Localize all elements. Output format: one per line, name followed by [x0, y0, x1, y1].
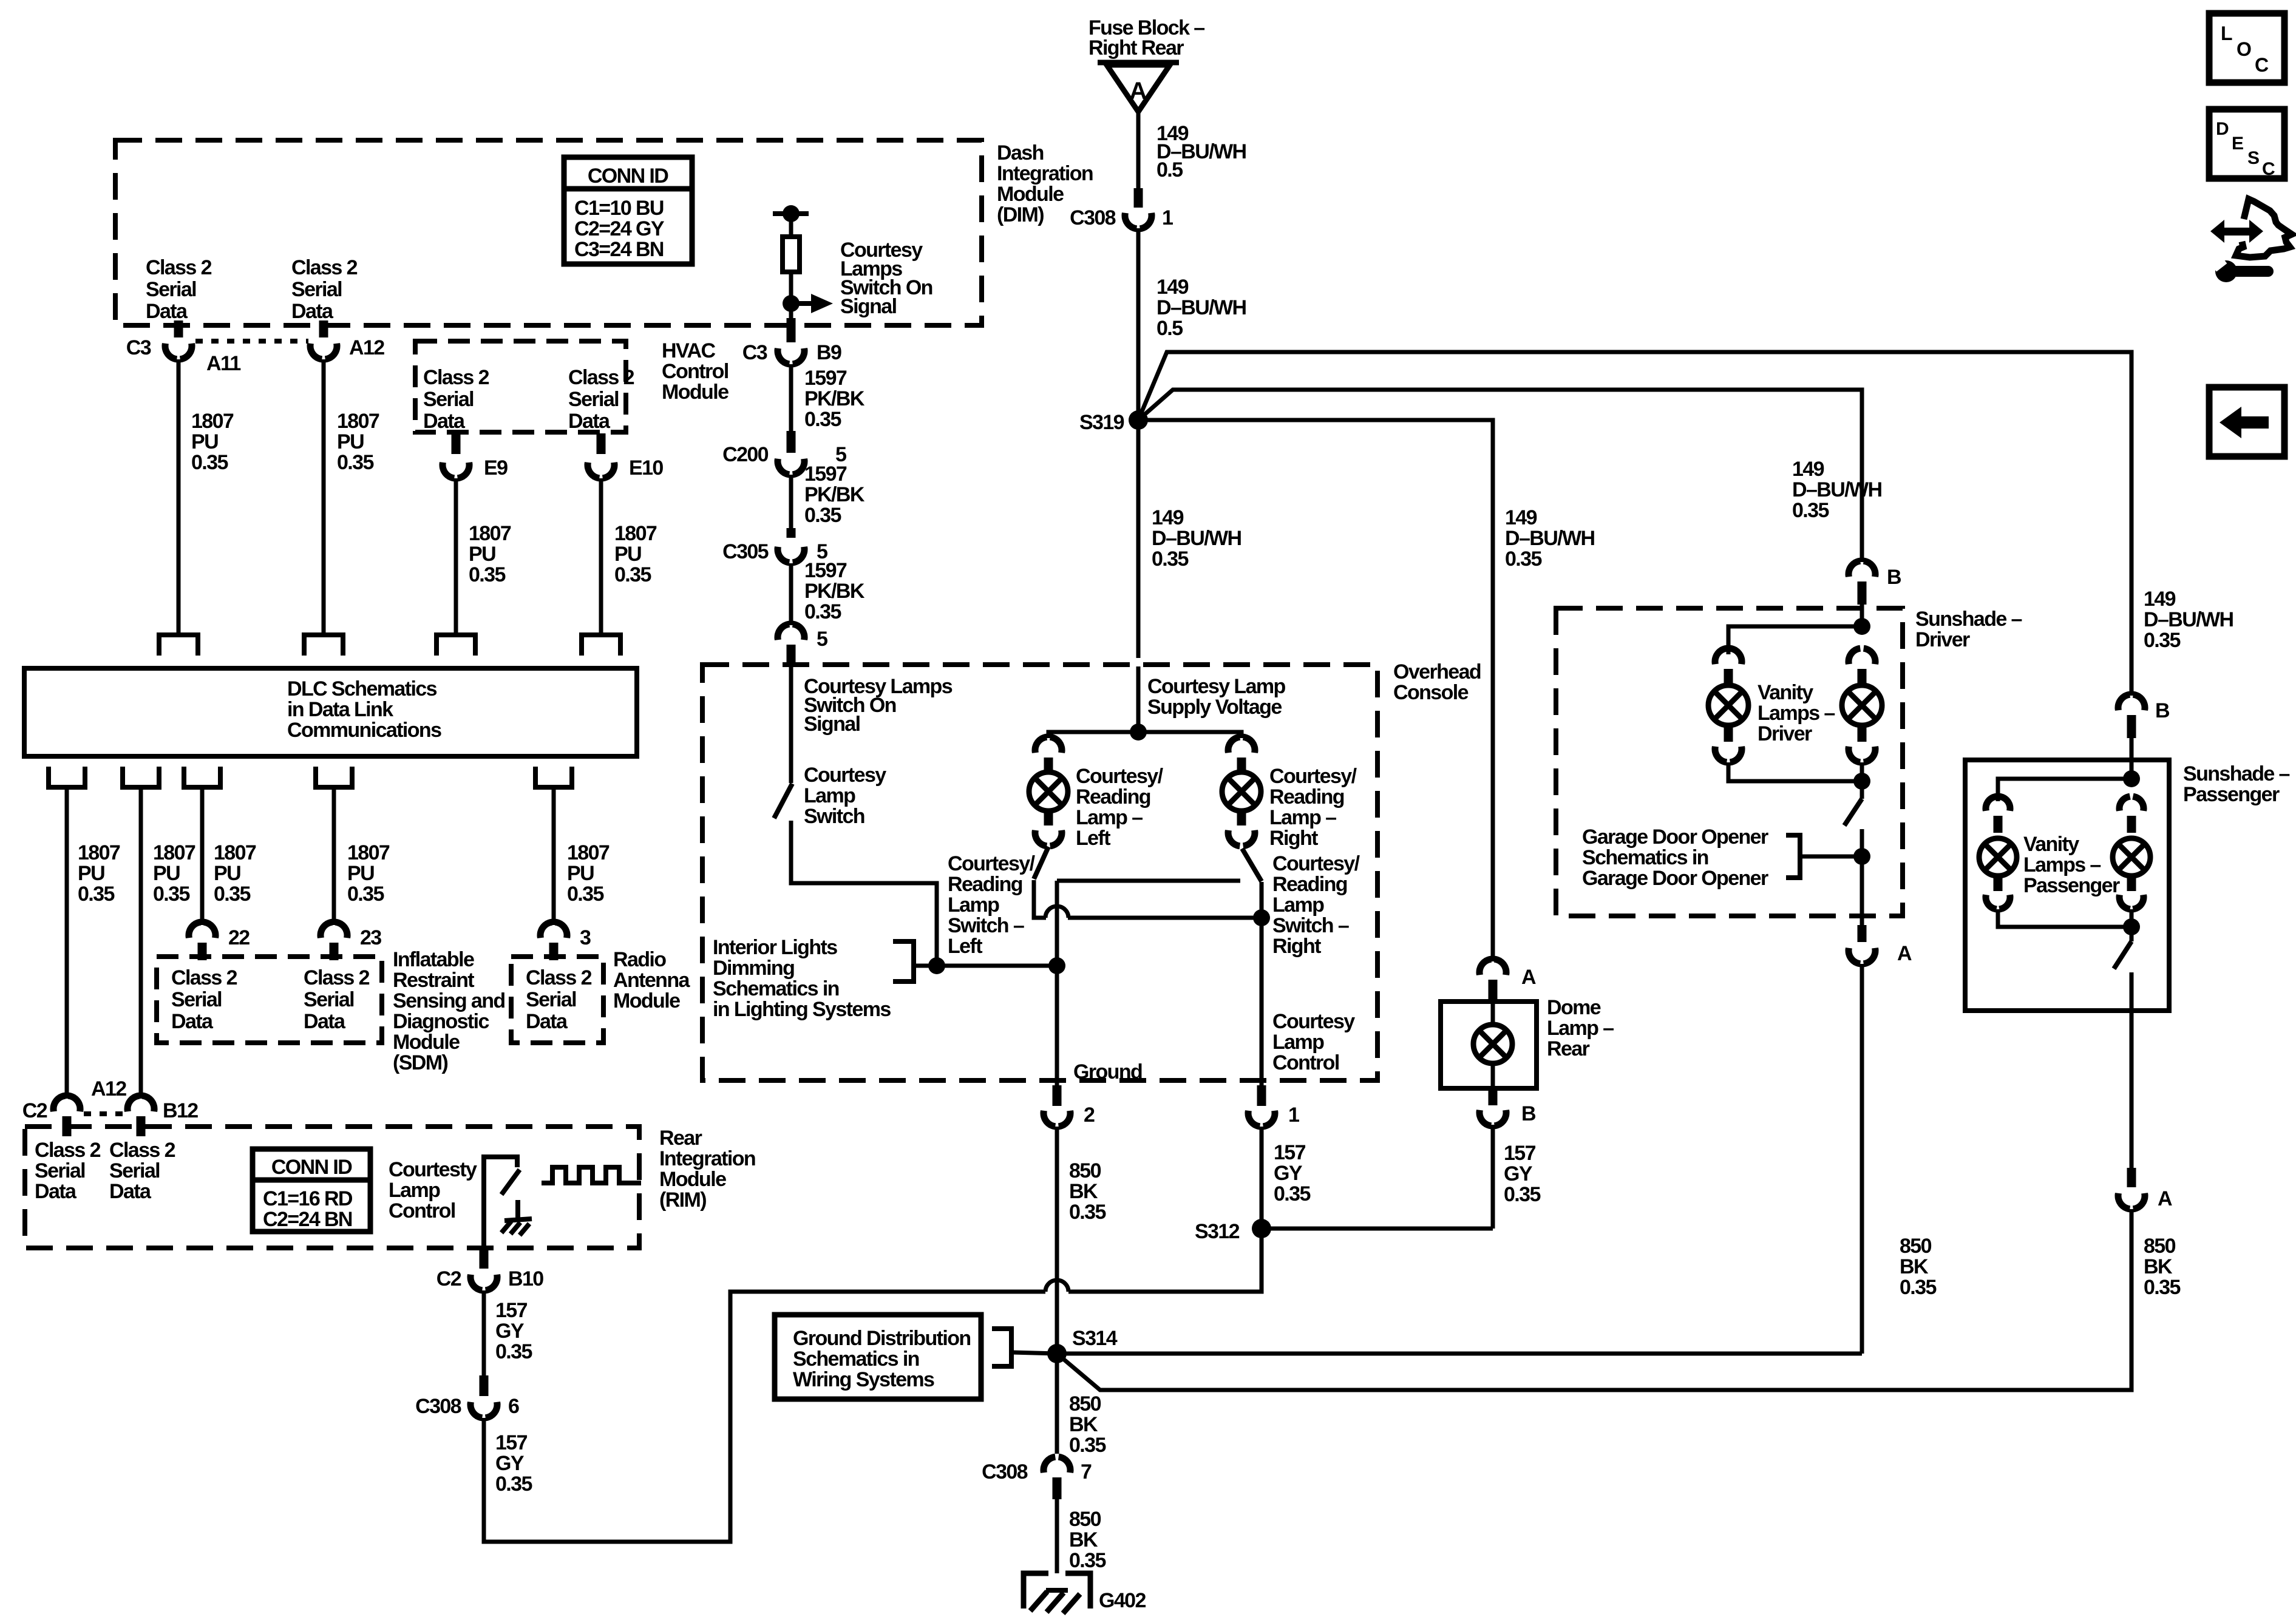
wire ground distribution tap	[1011, 1352, 1057, 1354]
DLC bottom pin bracket 3	[184, 767, 220, 787]
connector C200 male stub	[787, 431, 796, 453]
wire vanity right to junction passenger	[2130, 909, 2134, 927]
wire 1807 PU DLC to radio 3	[552, 787, 556, 925]
ground distribution contact bracket	[992, 1329, 1011, 1366]
connector vanity passenger left bottom	[1986, 895, 1997, 909]
lamp courtesy/reading right	[1222, 772, 1261, 811]
connector C3 pin B9	[778, 348, 789, 364]
lamp vanity driver right	[1842, 685, 1882, 725]
DLC bottom pin bracket 1	[49, 767, 85, 787]
svg-text:2: 2	[1084, 1103, 1095, 1127]
C308 pin 7 male stub	[1053, 1477, 1062, 1499]
svg-text:G402: G402	[1099, 1589, 1146, 1612]
lamp vanity passenger right	[2113, 838, 2150, 876]
svg-text:S: S	[2247, 148, 2259, 168]
vanity driver right top stub	[1858, 669, 1867, 687]
courtesy lamps switch-on signal resistor network	[773, 211, 809, 216]
connector pin A12	[310, 344, 322, 359]
connector radio pin 3	[540, 922, 552, 938]
connector SDM pin 23	[321, 922, 332, 938]
wire 157 GY pin1 to S312	[1260, 1127, 1264, 1229]
HVAC control module box	[415, 341, 626, 432]
connector courtesy/reading lamp left bottom	[1035, 830, 1047, 846]
dome lamp pin B male stub	[1489, 1088, 1498, 1105]
RIM C2 A12 male stub	[63, 1116, 72, 1136]
svg-text:C305: C305	[722, 540, 769, 563]
svg-text:E: E	[2232, 134, 2243, 154]
sunshade driver pin B male stub	[1858, 581, 1867, 605]
svg-text:OverheadConsole: OverheadConsole	[1393, 660, 1481, 704]
connector console pin 1	[1248, 1111, 1260, 1127]
connector sunshade passenger pin A	[2118, 1193, 2130, 1209]
svg-text:23: 23	[360, 926, 381, 949]
wire 149 D-BU/WH S319 to sunshade driver B	[1138, 390, 1862, 562]
wire 850 BK sunshade driver to S314	[1860, 964, 1864, 1354]
svg-text:B12: B12	[163, 1099, 198, 1122]
icon back arrow box	[2209, 387, 2284, 456]
wire 1807 PU DLC to C2 A12	[65, 787, 69, 937]
wire 157 GY dome riser	[1491, 1125, 1495, 1229]
SDM pin 22 male stub	[198, 943, 207, 960]
icon hand with double arrow and wrench	[2221, 228, 2252, 236]
connector C305 male stub	[787, 528, 796, 538]
wire hop over ground wire between switches	[1045, 906, 1068, 918]
wire 149 D-BU/WH S319 to sunshade passenger B	[1138, 352, 2131, 696]
svg-text:A12: A12	[349, 336, 384, 359]
DLC pin bracket 1	[159, 635, 198, 656]
svg-text:S314: S314	[1072, 1327, 1118, 1350]
wire dimming node to ground wire	[937, 964, 1057, 968]
connector C308 pin 6 male stub	[480, 1375, 489, 1396]
svg-text:1: 1	[1288, 1103, 1299, 1127]
sunshade driver box	[1556, 608, 1903, 916]
wire vanity passenger top rail	[1998, 779, 2131, 801]
junction garage door opener	[1853, 848, 1870, 865]
svg-text:B: B	[2155, 699, 2170, 722]
radio pin 3 male stub	[549, 943, 559, 960]
wire hop over ground wire at S314 column	[1045, 1280, 1068, 1292]
wire bracket to dimming node	[914, 964, 929, 968]
vanity passenger right bottom stub	[2127, 876, 2136, 891]
overhead console pin 5 male stub	[787, 645, 796, 666]
DLC bottom pin bracket 4	[316, 767, 352, 787]
wire dome lamp internal bottom	[1491, 1063, 1495, 1088]
svg-text:Courtesy LampSupply Voltage: Courtesy LampSupply Voltage	[1147, 675, 1286, 719]
connector C2 pin B10	[470, 1275, 482, 1290]
DLC pin bracket 2	[304, 635, 343, 656]
svg-text:6: 6	[508, 1395, 519, 1418]
garage door opener contact bracket	[1786, 835, 1800, 878]
lamp dome rear	[1473, 1025, 1512, 1063]
lamp vanity passenger left	[1979, 838, 2017, 876]
wire 850 BK driver leg to S314	[1057, 1352, 1862, 1356]
DLC bottom pin bracket 5	[535, 767, 572, 787]
sunshade driver switch blade	[1844, 799, 1862, 825]
wire vanity passenger bottom rail	[1998, 909, 2131, 927]
wire 1807 PU DLC to SDM 23	[332, 787, 336, 925]
connector E9 male stub	[452, 433, 461, 454]
wire ground rail console	[1055, 881, 1059, 1086]
wire 1807 PU E9 to DLC	[454, 478, 458, 635]
vanity driver left top stub	[1724, 669, 1733, 687]
svg-text:S312: S312	[1195, 1220, 1240, 1243]
splice S314	[1047, 1344, 1067, 1363]
courtesy/reading lamp switch right blade	[1242, 849, 1262, 881]
connector courtesy/reading lamp right bottom	[1228, 830, 1240, 846]
DLC pin bracket 3	[436, 635, 475, 656]
vanity passenger left bottom stub	[1994, 876, 2003, 891]
svg-text:CONN ID: CONN ID	[271, 1156, 352, 1179]
junction vanity passenger top	[2123, 770, 2140, 787]
sunshade passenger pin B male stub	[2127, 715, 2136, 738]
wire into sunshade driver	[1860, 605, 1864, 626]
wire supply voltage from pin 3	[1136, 666, 1141, 732]
connector E10	[588, 463, 599, 478]
svg-text:Sunshade –Passenger: Sunshade –Passenger	[2183, 762, 2290, 806]
svg-text:B: B	[1521, 1102, 1536, 1125]
wire to passenger sunshade switch	[2130, 927, 2134, 941]
connector vanity lamp driver left bottom	[1715, 747, 1727, 762]
wire garage door opener tap	[1800, 855, 1862, 859]
wire 149 D-BU/WH C308 to S319	[1136, 228, 1141, 420]
dome lamp pin A male stub	[1489, 980, 1498, 1002]
icon DESC box	[2209, 109, 2284, 178]
ground G402 symbol	[1024, 1573, 1090, 1609]
wire 1807 PU E10 to DLC	[599, 478, 603, 635]
DLC schematics box	[24, 668, 637, 756]
fuse block triangle A	[1098, 60, 1179, 66]
dotted twisted-pair link C2-B12	[84, 1111, 124, 1116]
wrench part of icon	[2215, 260, 2237, 282]
svg-text:C308: C308	[982, 1460, 1028, 1483]
junction supply voltage	[1130, 724, 1147, 741]
junction vanity driver top	[1853, 618, 1870, 635]
splice S319	[1129, 410, 1148, 430]
connector C3/B9 male stub	[787, 318, 796, 342]
wire 1807 PU A12 to DLC	[322, 359, 326, 635]
junction right switch to lamp control	[1253, 909, 1270, 926]
wire 149 D-BU/WH fuse block to C308	[1136, 112, 1141, 192]
svg-text:S319: S319	[1079, 411, 1124, 434]
wire sunshade driver switch to A	[1860, 829, 1864, 935]
connector C200 pin 5	[778, 459, 789, 475]
DLC bottom pin bracket 2	[123, 767, 159, 787]
connector C308 pin 1 male stub	[1134, 188, 1143, 208]
connector C308 pin 6	[470, 1402, 482, 1418]
sunshade passenger pin A male stub	[2127, 1168, 2136, 1187]
CONN ID table RIM	[253, 1149, 370, 1232]
wire courtesy lamp switch feed	[789, 666, 793, 783]
connector vanity lamp driver right top	[1849, 648, 1860, 664]
svg-text:Ground: Ground	[1073, 1060, 1142, 1083]
svg-text:C308: C308	[1070, 206, 1116, 229]
connector vanity lamp driver right bottom	[1849, 747, 1860, 762]
svg-text:L: L	[2221, 22, 2232, 44]
lamp left bottom male stub	[1044, 811, 1053, 825]
connector E9	[443, 463, 454, 478]
connector dome lamp pin A	[1479, 959, 1491, 975]
svg-text:A: A	[1521, 966, 1536, 989]
arrow courtesy lamps switch on signal	[791, 301, 811, 306]
junction vanity driver bottom	[1853, 773, 1870, 790]
wire 157 GY S312 to dome lamp B	[1262, 1227, 1493, 1231]
connector sunshade driver pin A	[1849, 948, 1860, 964]
svg-text:C: C	[2262, 159, 2275, 179]
wire courtesy lamp switch to dimming node	[791, 821, 937, 958]
wire 1597 PK/BK C200 to C305	[789, 475, 793, 528]
svg-text:C: C	[2255, 54, 2269, 76]
radio antenna module box	[511, 957, 603, 1043]
rear integration module (RIM) box	[25, 1127, 639, 1248]
wire right switch output	[1260, 882, 1264, 918]
junction dimming node A	[928, 957, 945, 974]
svg-text:3: 3	[580, 926, 591, 949]
connector C308 pin 1	[1125, 213, 1136, 229]
lamp right top male stub	[1237, 758, 1246, 772]
svg-text:5: 5	[817, 628, 827, 651]
wire vanity driver bottom rail	[1728, 762, 1862, 781]
svg-text:C200: C200	[722, 443, 769, 466]
CONN ID table DIM	[564, 157, 692, 264]
svg-text:E10: E10	[629, 456, 663, 480]
wire 149 D-BU/WH S319 to dome lamp A	[1138, 420, 1493, 961]
svg-text:C3: C3	[126, 336, 151, 359]
vanity driver right bottom stub	[1858, 725, 1867, 742]
wire sunshade passenger switch to A	[2130, 972, 2134, 1168]
SDM box	[157, 957, 382, 1043]
connector DIM A12 male stub	[319, 320, 328, 337]
svg-text:B9: B9	[817, 341, 841, 364]
sunshade passenger switch blade	[2114, 941, 2131, 969]
svg-text:C1=16 RDC2=24 BN: C1=16 RDC2=24 BN	[263, 1187, 353, 1231]
RIM internal ground symbol	[504, 1200, 532, 1221]
connector courtesy/reading lamp left top	[1035, 737, 1047, 753]
console pin 1 male stub	[1257, 1085, 1266, 1106]
node courtesy lamps switch on signal	[783, 295, 800, 312]
svg-text:E9: E9	[484, 456, 508, 480]
wire 157 GY to S312 part2	[1068, 1229, 1262, 1292]
console pin 2 male stub	[1053, 1085, 1062, 1106]
svg-text:A12: A12	[91, 1077, 126, 1100]
connector C2/B10 male stub	[480, 1249, 489, 1269]
DLC pin bracket 4	[582, 635, 620, 656]
dotted twisted-pair link A11-A12	[195, 339, 308, 344]
wire left lamp switch output	[1034, 880, 1046, 918]
svg-text:C2: C2	[22, 1099, 47, 1122]
dash integration module (DIM) box	[115, 140, 982, 325]
connector SDM pin 22	[189, 922, 200, 938]
svg-text:O: O	[2237, 38, 2251, 60]
wire 149 D-BU/WH S319 down to overhead console pin 3	[1136, 420, 1141, 658]
vanity passenger left top stub	[1994, 816, 2003, 833]
RIM courtesy lamp control switch	[484, 1157, 517, 1248]
wire 850 BK C308-7 to G402	[1055, 1499, 1059, 1573]
wire 1807 PU A11 to DLC	[177, 359, 181, 635]
lamp courtesy/reading left	[1029, 772, 1068, 811]
vanity driver left bottom stub	[1724, 725, 1733, 742]
svg-text:C2: C2	[436, 1267, 461, 1290]
courtesy lamp switch blade	[774, 784, 792, 818]
svg-text:A: A	[1897, 942, 1912, 965]
junction dimming node B	[1048, 957, 1065, 974]
connector vanity passenger left top	[1986, 796, 1997, 811]
connector DIM A11 male stub	[174, 320, 183, 337]
connector courtesy/reading lamp right top	[1228, 737, 1240, 753]
svg-text:1: 1	[1162, 206, 1173, 229]
connector C3 pin A11	[165, 344, 177, 359]
svg-text:B: B	[1887, 566, 1901, 589]
wire 1807 PU to RIM B12 continued	[139, 937, 143, 1099]
lamp vanity driver left	[1708, 685, 1748, 725]
connector RIM C2 pin A12	[53, 1096, 65, 1111]
lamp right bottom male stub	[1237, 811, 1246, 825]
RIM B12 male stub	[137, 1116, 146, 1136]
wire 1597 PK/BK C305 to console	[789, 563, 793, 625]
RIM pulse waveform symbol	[542, 1167, 641, 1183]
wire courtesy lamp control console	[1260, 918, 1264, 1086]
svg-text:CONN ID: CONN ID	[588, 164, 668, 188]
wire 157 GY C308-6 loop to S312 part1	[484, 1292, 1045, 1542]
wire 1807 PU DLC to B12	[139, 787, 143, 937]
svg-text:22: 22	[228, 926, 250, 949]
sunshade passenger box	[1965, 760, 2169, 1011]
svg-text:A: A	[2158, 1187, 2172, 1210]
wire 850 BK sunshade passenger to S314	[1057, 1209, 2131, 1390]
interior lights dimming contact bracket	[893, 941, 914, 981]
svg-text:C3: C3	[742, 341, 767, 364]
connector overhead console pin 5	[778, 624, 789, 640]
icon LOC box	[2209, 13, 2284, 83]
svg-text:A11: A11	[206, 352, 240, 375]
lamp left top male stub	[1044, 758, 1053, 772]
wire into sunshade passenger	[2130, 738, 2134, 779]
wire vanity right to junction	[1860, 762, 1864, 781]
wire vanity driver top rail	[1728, 626, 1862, 654]
connector E10 male stub	[597, 433, 606, 454]
courtesy/reading lamp switch left blade	[1034, 847, 1048, 879]
junction vanity passenger bottom	[2123, 918, 2140, 935]
svg-text:C1=10 BUC2=24 GYC3=24 BN: C1=10 BUC2=24 GYC3=24 BN	[574, 197, 665, 261]
wire supply voltage rail	[1048, 732, 1241, 738]
wire 157 GY B10 to C308-6	[482, 1290, 486, 1375]
resistor in DIM	[783, 237, 800, 272]
overhead console box	[702, 665, 1377, 1080]
wire dome lamp internal top	[1491, 1002, 1495, 1025]
splice S312	[1252, 1219, 1271, 1238]
connector C308 pin 7	[1044, 1457, 1055, 1473]
wire 1597 PK/BK B9 to C200	[789, 364, 793, 431]
connector vanity passenger right top	[2119, 796, 2130, 811]
connector vanity passenger right bottom	[2119, 895, 2130, 909]
connector RIM pin B12	[127, 1096, 139, 1111]
wire 1807 PU DLC to SDM 22	[200, 787, 205, 925]
wire right switch fixed contact	[1057, 879, 1240, 883]
svg-text:C308: C308	[415, 1395, 461, 1418]
ground distribution box	[775, 1315, 981, 1399]
connector dome lamp pin B	[1479, 1110, 1491, 1126]
wire 850 BK pin2 to C308-7	[1055, 1127, 1059, 1454]
wire to driver sunshade switch	[1860, 781, 1864, 799]
vanity passenger right top stub	[2127, 816, 2136, 833]
connector sunshade passenger pin B	[2118, 694, 2130, 710]
sunshade driver pin A male stub	[1858, 925, 1867, 942]
wire 1807 PU to RIM C2 continued	[65, 937, 69, 1099]
connector console pin 2	[1044, 1111, 1055, 1127]
SDM pin 23 male stub	[330, 943, 339, 960]
connector C305 pin 5	[778, 547, 789, 563]
wire left switch to right switch node	[1068, 916, 1262, 920]
connector sunshade driver pin B	[1849, 561, 1860, 577]
svg-text:B10: B10	[508, 1267, 543, 1290]
svg-text:D: D	[2216, 119, 2229, 139]
svg-text:7: 7	[1081, 1460, 1092, 1483]
svg-text:A: A	[1129, 78, 1146, 104]
dome lamp rear box	[1441, 1002, 1537, 1088]
connector vanity lamp driver left top	[1715, 648, 1727, 664]
